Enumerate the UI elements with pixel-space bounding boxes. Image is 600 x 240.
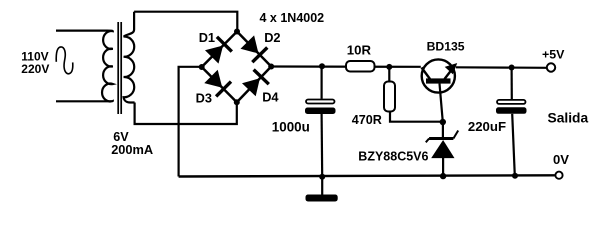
wire primary bottom: [56, 100, 107, 102]
svg-text:470R: 470R: [352, 113, 382, 127]
transistor Q1 BD135: [422, 59, 457, 122]
node top: [234, 29, 240, 35]
wire bridge arm top-right: [237, 32, 271, 67]
diode D3: [204, 70, 231, 97]
svg-text:BD135: BD135: [427, 40, 465, 54]
node left: [199, 64, 205, 70]
svg-text:+5V: +5V: [542, 48, 565, 62]
svg-text:D1: D1: [199, 30, 215, 45]
svg-text:D4: D4: [262, 89, 279, 104]
top rail: transistor to +5V terminal: [456, 66, 547, 69]
terminal +5V: [547, 63, 555, 71]
junction 220uF top: [509, 65, 515, 71]
junction zener bottom: [440, 173, 446, 179]
svg-text:BZY88C5V6: BZY88C5V6: [358, 150, 428, 164]
resistor 470R: [384, 67, 443, 122]
wire bridge arm bottom-right: [237, 67, 271, 103]
label 6V 200mA: [111, 130, 153, 157]
wire secondary top to bridge top node: [134, 12, 237, 32]
transformer T1 primary winding: [102, 31, 113, 102]
zener diode BZY88C5V6: [426, 122, 458, 176]
svg-text:0V: 0V: [553, 152, 569, 167]
svg-text:220uF: 220uF: [468, 119, 506, 134]
AC source sine symbol: [56, 47, 73, 74]
node bottom: [234, 99, 240, 105]
junction 220uF bottom: [512, 173, 518, 179]
transformer T1 secondary winding: [124, 12, 135, 103]
junction base node: [440, 119, 446, 125]
svg-text:220V: 220V: [21, 62, 49, 76]
resistor 10R: [346, 61, 375, 72]
svg-text:200mA: 200mA: [111, 142, 153, 157]
svg-text:10R: 10R: [347, 43, 372, 58]
svg-text:4 x 1N4002: 4 x 1N4002: [260, 11, 325, 25]
label 110V 220V: [21, 50, 49, 76]
wire bridge left node to bottom rail: [179, 67, 202, 177]
svg-text:D2: D2: [264, 30, 280, 45]
wire secondary bottom to bridge bottom node: [135, 102, 237, 124]
bottom rail: [179, 175, 555, 176]
junction 1000u top: [319, 63, 325, 69]
capacitor C2 220uF: [496, 68, 527, 176]
junction 470R top: [386, 64, 392, 70]
diode D2: [241, 35, 268, 62]
wire bridge arm left-bottom: [202, 67, 237, 102]
svg-text:D3: D3: [196, 91, 212, 106]
top rail: bridge right node to transistor: [271, 65, 421, 68]
ground symbol: [306, 177, 338, 202]
svg-text:1000u: 1000u: [272, 120, 310, 135]
wire primary top: [56, 30, 107, 32]
wire bridge arm left-top: [202, 32, 237, 68]
terminal 0V: [555, 172, 562, 179]
capacitor C1 1000u: [305, 66, 336, 176]
diode D1: [205, 37, 232, 64]
transformer core: [118, 22, 121, 114]
junction ground: [319, 174, 325, 180]
svg-text:Salida: Salida: [548, 111, 589, 126]
diode D4: [242, 70, 269, 97]
node right: [268, 64, 274, 70]
